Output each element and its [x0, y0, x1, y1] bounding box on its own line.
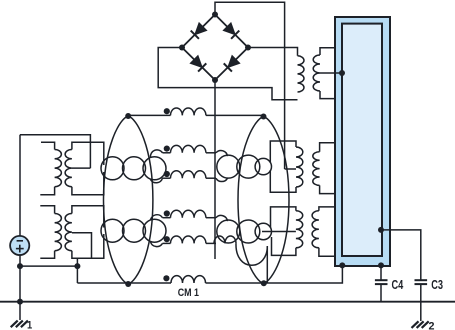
wire: row 3 left segment — [163, 177, 171, 179]
svg-text:2: 2 — [429, 320, 435, 330]
diode D3 — [190, 55, 206, 71]
left lower loop exit to row 5 — [151, 242, 163, 247]
LCD panel outer frame — [335, 17, 390, 266]
wire: T3 left bottom lead with jog to ring — [270, 170, 296, 192]
diode D2 — [223, 23, 239, 39]
diode bridge rectifier — [182, 15, 248, 81]
wire: feed rail from source to T1a tap — [20, 135, 90, 168]
ground 1 (chassis) — [11, 321, 18, 328]
wire: T1b right bottom lead to left ring — [72, 234, 104, 258]
node: left ring bottom — [125, 281, 131, 287]
node: source return — [17, 263, 23, 269]
wire: lamp bottom to C4 — [380, 265, 382, 279]
wire: row 5 right segment — [206, 242, 216, 244]
choke L4 (row 4) — [171, 210, 206, 217]
wire: row 1 right segment — [206, 114, 264, 116]
capacitor C4 — [375, 279, 388, 281]
transformer T1a right winding — [65, 150, 72, 187]
wire: T3 right top lead to panel — [320, 143, 335, 152]
transformer T4 right winding — [312, 211, 319, 248]
transformer T2 (top right) primary winding — [298, 56, 304, 92]
node: lamp top electrode — [339, 70, 345, 76]
ground 1 stem — [19, 302, 21, 320]
T1a left winding bottom stub — [40, 187, 54, 195]
wire: T1b right top lead to left ring — [72, 206, 104, 228]
bottom ground bus — [0, 301, 455, 303]
wire: source bottom lead — [19, 254, 21, 302]
wire: lamp right electrode to C3 — [381, 230, 421, 280]
node: bus junction under source — [17, 299, 23, 305]
wire: top vertex to top rail — [215, 2, 285, 169]
wire: T2 secondary centre tap to lamp — [320, 72, 342, 74]
wire: T1b centre tap — [72, 233, 92, 259]
wire: ring lower stub to CM1 row — [266, 246, 268, 283]
wire: T4 right top lead to panel — [319, 207, 335, 211]
wire: T3 left top lead with jog to ring — [270, 141, 296, 163]
node: bridge left vertex — [179, 45, 185, 51]
wire: row 5 left segment — [163, 242, 171, 244]
wire: bridge left vertex loop to T2 primary bottom — [158, 48, 297, 100]
transformer T4 (bottom right) left winding — [296, 211, 303, 248]
wire: T3 left centre tap from top rail — [285, 168, 296, 170]
transformer T1b left winding — [55, 214, 62, 251]
phase dot CM1 — [163, 275, 169, 281]
wire: return drop to CM1 row — [76, 258, 78, 283]
choke L3 (row 3) — [171, 171, 206, 178]
wire: CM1 row right segment to panel — [206, 265, 343, 283]
right ring upper coupling loops — [217, 155, 240, 178]
choke L2 (row 2) — [171, 145, 206, 152]
node: T1b return junction — [74, 263, 80, 269]
right ring lower coupling loops (row 4) — [217, 220, 240, 243]
node: left ring top — [125, 113, 131, 119]
node: lamp right electrode — [378, 227, 384, 233]
left lower loop exit to row 4 — [151, 215, 163, 220]
node: lamp bottom left — [339, 262, 345, 268]
wire: row 4 left segment — [163, 217, 171, 219]
right lower deep U loop (row 5) — [236, 243, 267, 265]
wire: C4 to bus — [380, 285, 382, 302]
node: bridge right vertex — [245, 45, 251, 51]
svg-text:1: 1 — [27, 319, 32, 330]
node: bridge top vertex — [212, 12, 218, 18]
left upper loop exit to row 3 — [151, 178, 163, 183]
choke L1 (row 1) — [171, 108, 206, 115]
right upper loop entry from row 3 — [216, 178, 228, 181]
wire: row 2 right segment — [206, 152, 216, 154]
wire: C3 to ground 2 — [420, 285, 422, 322]
wire: row 2 left segment — [163, 152, 171, 154]
diode D1 — [191, 23, 207, 39]
CCFL lamp (panel inner rect) — [342, 24, 382, 256]
wire: T1a right bottom lead to left ring — [72, 172, 104, 195]
phase dot row 3 — [164, 171, 170, 177]
wire: source to T1b return — [20, 265, 77, 267]
wire: row 1 left segment — [128, 114, 170, 116]
wire: T2 secondary bottom lead to panel — [320, 91, 335, 99]
right upper loop entry from row 2 — [216, 151, 228, 157]
right balance ring (ellipse) — [238, 117, 289, 284]
transformer T1b right winding — [65, 214, 72, 251]
wire: bridge right vertex to T2 primary top — [248, 48, 298, 56]
wire: row 3 right segment — [206, 177, 216, 179]
svg-text:C4: C4 — [392, 278, 404, 292]
right lower loop entry from row 4 — [216, 215, 228, 221]
T1a left winding top stub — [41, 142, 55, 149]
wire: source top lead — [19, 135, 21, 237]
wire: T4 right bottom lead to panel — [319, 248, 335, 256]
wire: T3 right bottom lead to panel — [320, 185, 335, 193]
wire: T4 left centre tap — [262, 231, 296, 233]
common-mode choke CM1 winding — [171, 276, 206, 283]
node: lamp bottom right — [378, 262, 384, 268]
choke L5 (row 5) — [171, 236, 206, 243]
node: right ring top — [261, 114, 267, 120]
ground 2 (chassis) — [412, 321, 419, 328]
transformer T3 right winding — [313, 152, 320, 186]
phase dot row 4 — [164, 210, 170, 216]
wire: T1a right top lead to left ring — [72, 142, 104, 165]
capacitor C3 — [415, 279, 428, 281]
left balance ring (ellipse) — [104, 116, 153, 284]
wire: T1a centre tap — [72, 167, 91, 169]
wire: CM1 row left segment — [77, 282, 171, 284]
phase dot row 1 — [164, 108, 170, 114]
AC source V1 — [10, 236, 29, 255]
transformer T2 secondary winding — [313, 55, 320, 91]
diode D4 — [224, 55, 240, 71]
phase dot row 2 — [164, 146, 170, 152]
left ring upper coupling loops — [101, 157, 124, 180]
T1b left winding top stub — [40, 206, 54, 214]
left upper loop exit to row 2 — [150, 150, 162, 158]
wire: T2 secondary top lead to panel — [320, 48, 335, 55]
left ring lower coupling loops — [101, 219, 124, 242]
transformer T1a left winding — [55, 150, 62, 187]
svg-text:C3: C3 — [431, 278, 443, 292]
node: bridge bottom vertex — [212, 77, 218, 83]
transformer T3 (middle right) left winding — [296, 147, 303, 187]
phase dot row 5 — [164, 236, 170, 242]
wire: T4 left top lead with jog to ring — [271, 207, 296, 228]
wire: row 4 right segment — [206, 217, 216, 219]
wire: bridge bottom vertex down the middle — [214, 80, 216, 259]
T1b left winding bottom stub — [40, 251, 54, 259]
row 5 extension bumps — [214, 236, 236, 243]
wire: T4 left bottom lead with jog — [272, 237, 296, 255]
svg-text:CM 1: CM 1 — [178, 287, 199, 299]
node: right ring bottom — [261, 280, 267, 286]
